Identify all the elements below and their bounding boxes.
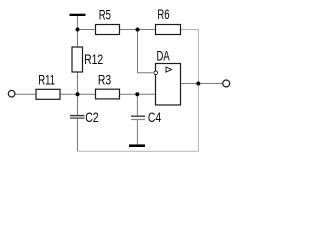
svg-text:DA: DA [157, 49, 170, 64]
svg-text:R11: R11 [38, 73, 55, 88]
svg-text:R5: R5 [99, 8, 111, 23]
svg-text:R3: R3 [98, 72, 112, 88]
svg-text:C2: C2 [85, 110, 99, 126]
svg-text:R6: R6 [157, 8, 169, 23]
svg-text:C4: C4 [148, 110, 162, 126]
svg-text:R12: R12 [84, 52, 103, 68]
